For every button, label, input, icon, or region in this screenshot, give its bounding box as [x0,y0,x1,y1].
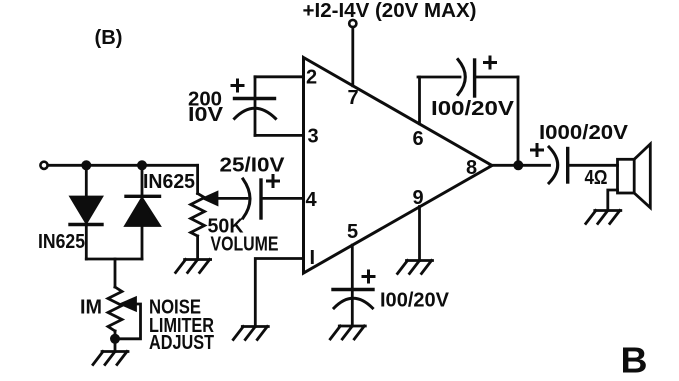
diode D1 1N625 [70,165,102,259]
ground speaker [586,211,621,224]
plus sign C2 [268,176,279,187]
svg-text:I: I [310,247,316,269]
wire output pin 8 [490,164,550,167]
wire cap C1 top lead [254,77,257,99]
wire pin 3 stub [255,134,304,137]
junction dot 1M bottom [110,334,120,344]
potentiometer R1 50K [191,194,205,237]
wire diode bottom bus [86,258,142,261]
wire pin 6 lead [418,77,421,124]
capacitor C2 25/10V curved plate [243,179,250,218]
svg-text:+I2-I4V (20V MAX): +I2-I4V (20V MAX) [303,0,477,22]
capacitor C5 1000/20V plate [566,149,569,183]
capacitor C1 200/10V plate [235,97,275,100]
junction dot D1 top [81,160,91,170]
wire pin 2 stub [255,75,304,78]
wire input line to 50K pot [196,165,199,193]
svg-text:I0V: I0V [188,104,224,126]
ground pin 9 [398,261,433,274]
svg-text:7: 7 [348,87,359,109]
diode D2 1N625 [126,165,160,259]
svg-text:IM: IM [80,297,102,319]
wire supply to pin 7 [351,27,354,86]
wire pin 9 lead [418,207,421,261]
wiper arrow 50K [204,193,247,205]
wire speaker to ground [608,190,618,211]
potentiometer R2 1M [108,287,122,331]
capacitor C3 100/20V plate [333,288,373,291]
svg-text:VOLUME: VOLUME [211,234,279,256]
ground 1M [93,352,128,365]
plus sign C1 [232,80,243,91]
svg-text:25/I0V: 25/I0V [220,155,286,177]
ground pin 1 [233,327,268,340]
wire 1M bottom lead [114,331,117,339]
wire C4 loop top left [418,76,460,79]
svg-text:I000/20V: I000/20V [539,122,629,144]
wire cap C1 bottom lead [254,99,257,136]
ground C3 [330,326,365,339]
op-amp U1 [304,58,493,274]
svg-text:5: 5 [347,221,358,243]
plus sign C4 [485,57,496,68]
svg-text:4Ω: 4Ω [585,167,608,189]
svg-text:IN625: IN625 [38,231,85,253]
wire 1M to ground [114,339,117,352]
svg-text:I00/20V: I00/20V [380,290,450,312]
wiper arrow 1M [119,298,141,339]
junction dot D2 top [137,160,147,170]
svg-text:2: 2 [306,67,317,89]
capacitor C2 25/10V plate [259,180,262,218]
svg-text:4: 4 [306,189,318,211]
junction dot output [513,160,523,170]
wire pin 5 lead [351,245,354,326]
wire bus to 1M pot [114,259,117,287]
ground 50K [176,260,211,273]
svg-text:I00/20V: I00/20V [431,98,515,120]
capacitor C4 100/20V curved plate [458,60,465,95]
svg-text:3: 3 [308,126,319,148]
plus sign C5 [532,145,543,156]
speaker LS1 [618,144,651,208]
capacitor C4 100/20V plate [473,60,476,96]
wire input line [48,164,198,167]
supply terminal [349,20,356,27]
wire C4 loop top right [475,76,518,79]
capacitor C5 1000/20V curved plate [549,147,558,183]
wire C5 to speaker [568,164,618,167]
svg-text:6: 6 [413,128,424,150]
wire 50K to ground [196,236,199,260]
wire pin 1 stub [255,259,303,327]
input terminal [40,162,47,169]
wire C4 loop right down to output [517,77,520,164]
svg-text:IN625: IN625 [143,171,195,193]
capacitor C3 100/20V curved plate [334,298,373,308]
wire C2 to pin 4 [261,197,304,200]
svg-text:8: 8 [466,157,477,179]
svg-text:9: 9 [413,187,424,209]
capacitor C1 200/10V curved plate [235,108,276,118]
svg-text:B: B [621,340,648,377]
svg-text:ADJUST: ADJUST [149,332,214,354]
plus sign C3 [363,271,374,282]
svg-text:(B): (B) [95,27,123,49]
